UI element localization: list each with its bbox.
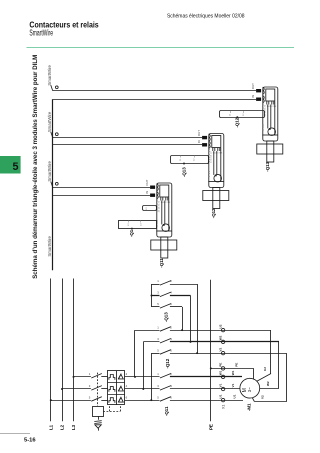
wire breaker out row 3	[125, 400, 160, 402]
svg-text:-Q11: -Q11	[159, 258, 164, 268]
breaker box Q1	[108, 371, 125, 405]
svg-text:SmartWire: SmartWire	[47, 236, 52, 257]
wire supply to breaker pole 3	[51, 400, 91, 402]
svg-text:Schémas électriques Moeller 02: Schémas électriques Moeller 02/08	[167, 13, 245, 19]
svg-text:SmartWire: SmartWire	[47, 111, 52, 132]
terminal X1	[221, 351, 224, 354]
socket notches	[263, 87, 265, 94]
SmartWire module -Q12	[197, 130, 229, 218]
thermal overload element	[109, 398, 115, 403]
svg-text:13 14 21 22: 13 14 21 22	[159, 200, 161, 212]
breaker contact pole 1	[91, 374, 102, 379]
SmartWire module -Q13	[251, 83, 283, 172]
supply line L3	[73, 279, 75, 422]
plug IN -Q11	[150, 186, 155, 189]
plug OUT -Q11	[150, 194, 155, 197]
aux contact -Q13 (at module Q12)	[171, 156, 209, 164]
module housing -Q11	[157, 183, 172, 237]
junction row 1	[134, 376, 136, 378]
SmartWire cable pair 1 wire B	[53, 99, 256, 101]
terminal ticks	[208, 149, 210, 151]
wire W2 row	[170, 341, 279, 343]
connector pins	[212, 148, 214, 151]
svg-text:-Q12: -Q12	[235, 117, 240, 127]
drop Q12 row 1	[134, 330, 136, 377]
svg-text:PE: PE	[235, 363, 239, 367]
contactor body -Q12	[203, 191, 229, 201]
svg-text:-Q13: -Q13	[164, 312, 169, 322]
wire PE row	[211, 368, 254, 370]
svg-text:X1: X1	[221, 405, 225, 409]
junction row 2	[142, 388, 144, 390]
mounting tab -Q12	[213, 188, 220, 209]
internal coil wiring	[161, 201, 163, 225]
junction on aux -Q13	[183, 163, 185, 165]
junction L3	[73, 376, 75, 378]
svg-text:SmartWire: SmartWire	[47, 65, 52, 86]
wire Q13 row 1 right	[170, 284, 197, 286]
breaker contact pole 3	[91, 397, 102, 402]
coil A1-A2 -Q13	[268, 128, 276, 136]
cable end circle pair 3	[55, 182, 58, 185]
svg-text:U2: U2	[263, 367, 267, 371]
drop Q12 row 2	[143, 342, 145, 389]
contactor -Q13 pole 1	[160, 281, 171, 286]
svg-text:SmartWire: SmartWire	[47, 161, 52, 182]
loop V2	[286, 353, 288, 402]
svg-text:-Q12: -Q12	[165, 358, 170, 368]
internal coil wiring	[267, 105, 269, 129]
wire Q13 row 2 left	[152, 295, 160, 297]
SmartWire trunk vertical	[52, 99, 54, 270]
socket notches	[209, 134, 211, 141]
connector pins	[160, 198, 162, 201]
connector pins	[266, 102, 268, 105]
svg-text:PE: PE	[208, 424, 213, 430]
terminal X1	[221, 387, 224, 390]
plug OUT -Q12	[202, 143, 207, 146]
loop W2	[278, 342, 280, 388]
plug OUT -Q13	[256, 98, 261, 101]
star point bus	[151, 284, 153, 307]
thermal overload element	[109, 387, 115, 392]
svg-text:PE: PE	[218, 363, 222, 367]
mounting tab -Q11	[161, 237, 168, 258]
supply line L2	[62, 279, 64, 422]
wire Q12 row 2 left	[143, 341, 159, 343]
supply line L1	[50, 279, 52, 422]
svg-text:V1: V1	[218, 383, 222, 387]
contactor -Q13 pole 3	[160, 304, 171, 309]
cable end stub pair 3	[51, 182, 53, 188]
svg-text:OUT: OUT	[251, 83, 255, 89]
svg-text:IN: IN	[197, 140, 201, 143]
terminal X1	[221, 328, 224, 331]
wire breaker out row 2	[125, 388, 160, 390]
module housing -Q12	[209, 134, 224, 188]
contactor -Q12 pole 1	[160, 327, 171, 332]
svg-text:3~: 3~	[247, 387, 252, 392]
loop U2	[270, 330, 272, 373]
wire U2 row	[170, 330, 271, 332]
wire Q13 row 3 left	[152, 306, 160, 308]
wire V2 row	[170, 353, 287, 355]
manual operator symbol	[94, 420, 101, 423]
svg-text:W2: W2	[218, 335, 222, 340]
wire supply to breaker pole 2	[62, 388, 91, 390]
svg-text:Schéma d’un démarreur triangle: Schéma d’un démarreur triangle-étoile av…	[32, 55, 39, 279]
wire Q12 row 1 left	[135, 330, 160, 332]
contactor body -Q11	[151, 240, 177, 250]
PE conductor	[210, 280, 212, 422]
junction L1	[50, 399, 52, 401]
terminal X1	[221, 398, 224, 401]
svg-text:13 14 21 22: 13 14 21 22	[211, 151, 213, 163]
coil A1-A2 -Q11	[162, 224, 170, 232]
cable end circle pair 2	[55, 133, 58, 136]
svg-text:-Q1: -Q1	[129, 229, 134, 237]
svg-text:5: 5	[12, 161, 18, 173]
SmartWire cable pair 2 wire A	[53, 137, 202, 139]
terminal ticks	[156, 198, 158, 200]
chapter tab 5	[0, 156, 21, 174]
junction on aux -Q1	[131, 228, 133, 230]
svg-text:W2: W2	[266, 381, 270, 386]
contactor -Q11 pole 1	[160, 374, 171, 379]
cable end circle pair 1	[55, 86, 58, 89]
drop Q13 row 1	[197, 284, 199, 353]
magnetic trip element	[119, 398, 124, 403]
drop Q13 row 3	[182, 307, 184, 330]
contactor -Q11 pole 3	[160, 397, 171, 402]
svg-text:W1: W1	[218, 370, 222, 375]
contactor -Q11 pole 2	[160, 386, 171, 391]
wire supply to breaker pole 1	[74, 376, 91, 378]
socket notches	[157, 184, 159, 191]
aux contact -Q1 13-14 (at module Q11)	[119, 221, 157, 229]
connector block -Q13	[266, 89, 275, 101]
connector block -Q12	[212, 136, 221, 148]
junction star	[151, 295, 153, 297]
coil A1-A2 -Q12	[214, 174, 222, 182]
wire Q13 row 3 right	[170, 306, 182, 308]
wire Q13 row 2 right	[170, 295, 191, 297]
junction PE	[210, 367, 212, 369]
drop Q12 row 3	[151, 353, 153, 400]
magnetic trip element	[119, 386, 124, 391]
breaker mechanism dashed link	[97, 373, 99, 407]
plug IN -Q12	[202, 136, 207, 139]
svg-text:OUT: OUT	[145, 179, 149, 185]
junction	[181, 329, 183, 331]
SmartWire cable pair 2 wire B	[53, 144, 202, 146]
svg-text:V2: V2	[260, 395, 264, 399]
SmartWire cable pair 1 wire A	[53, 90, 256, 92]
aux contact -Q12 (at module Q13)	[220, 111, 265, 118]
breaker operator square	[93, 407, 104, 417]
plug IN -Q13	[256, 89, 261, 92]
breaker contact pole 2	[91, 386, 102, 391]
svg-text:L2: L2	[60, 424, 65, 430]
wire U1 row	[170, 400, 243, 402]
svg-text:L1: L1	[48, 424, 53, 430]
svg-text:W1: W1	[231, 370, 235, 375]
svg-text:SmartWire: SmartWire	[29, 29, 53, 38]
SmartWire module -Q11	[145, 179, 177, 267]
SmartWire cable pair 3 wire A	[53, 187, 150, 189]
svg-text:L3: L3	[71, 424, 76, 430]
contactor body -Q13	[257, 144, 283, 154]
svg-text:U2: U2	[218, 324, 222, 328]
wire W1 row	[170, 376, 242, 378]
cable end stub pair 2	[51, 132, 53, 138]
footer rule	[0, 433, 30, 435]
terminal X1	[221, 367, 224, 370]
internal coil wiring	[213, 151, 215, 175]
terminal X1	[221, 375, 224, 378]
motor M1	[240, 378, 260, 398]
junction L2	[61, 388, 63, 390]
wire V1 row	[170, 388, 240, 390]
svg-text:-Q13: -Q13	[265, 161, 270, 171]
magnetic trip element	[119, 374, 124, 379]
breaker linkage dashed	[103, 411, 120, 413]
svg-text:5-16: 5-16	[24, 438, 36, 444]
junction row 3	[150, 399, 152, 401]
contactor -Q12 pole 3	[160, 350, 171, 355]
green rule	[27, 47, 295, 49]
svg-text:OUT: OUT	[197, 130, 201, 136]
svg-text:U1: U1	[218, 394, 222, 398]
junction	[196, 352, 198, 354]
connector block -Q11	[160, 185, 169, 197]
junction on aux -Q12	[236, 116, 238, 118]
cable end stub pair 1	[51, 85, 53, 91]
svg-text:V2: V2	[218, 347, 222, 351]
svg-text:-Q13: -Q13	[181, 167, 186, 177]
terminal ticks	[262, 102, 264, 104]
module housing -Q13	[263, 87, 278, 141]
svg-text:V1: V1	[231, 383, 235, 387]
aux contact small (at module Q11)	[143, 206, 157, 211]
svg-text:U1: U1	[233, 394, 237, 398]
svg-text:-Q11: -Q11	[164, 406, 169, 416]
contactor -Q13 pole 2	[160, 292, 171, 297]
wire breaker out row 1	[125, 376, 160, 378]
svg-text:IN: IN	[251, 95, 255, 98]
drop Q13 row 2	[190, 296, 192, 342]
mounting tab -Q13	[267, 141, 274, 162]
SmartWire cable pair 3 wire B	[53, 195, 150, 197]
wire Q13 row 1 left	[152, 284, 160, 286]
svg-text:-Q12: -Q12	[211, 208, 216, 218]
wire Q12 row 3 left	[151, 353, 159, 355]
svg-text:IN: IN	[145, 191, 149, 194]
terminal X1	[221, 340, 224, 343]
svg-text:-M1: -M1	[246, 403, 251, 411]
junction	[190, 341, 192, 343]
thermal overload element	[109, 375, 115, 380]
contactor -Q12 pole 2	[160, 339, 171, 344]
